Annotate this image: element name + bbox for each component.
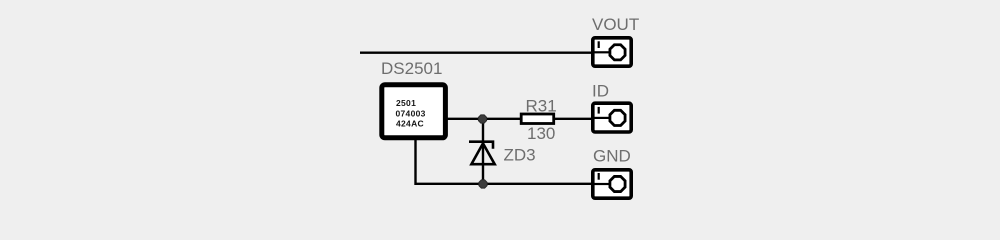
zener diode ZD3 anode triangle bbox=[471, 143, 494, 164]
svg-text:VOUT: VOUT bbox=[592, 15, 639, 34]
connector pad GND bbox=[593, 170, 631, 198]
wire GND net (DS2501 bottom pin down and right to GND pad) bbox=[416, 138, 613, 184]
zener diode ZD3 cathode bar bbox=[469, 142, 493, 149]
svg-text:ID: ID bbox=[592, 82, 609, 101]
IC U1 chip marking text bbox=[396, 98, 426, 128]
resistor R31 bbox=[521, 114, 554, 124]
wire VOUT net (top horizontal) bbox=[360, 52, 612, 54]
svg-text:ZD3: ZD3 bbox=[504, 146, 536, 165]
connector pad ID bbox=[593, 103, 631, 132]
svg-text:GND: GND bbox=[593, 147, 631, 166]
op IC U1 DS2501 body bbox=[382, 85, 446, 138]
svg-text:074003: 074003 bbox=[396, 108, 426, 118]
svg-text:R31: R31 bbox=[526, 97, 557, 116]
node junction dot lower (GND net / zener) bbox=[479, 180, 487, 188]
node junction dot upper (ID net / zener) bbox=[478, 115, 486, 123]
svg-text:2501: 2501 bbox=[396, 98, 416, 108]
svg-text:130: 130 bbox=[527, 124, 555, 143]
wire zener branch (vertical through ZD3) bbox=[482, 119, 484, 184]
svg-text:DS2501: DS2501 bbox=[381, 59, 442, 78]
connector pad VOUT bbox=[593, 38, 631, 66]
svg-text:424AC: 424AC bbox=[396, 118, 424, 128]
wire ID net (DS2501 right pin to ID pad) bbox=[446, 118, 612, 120]
